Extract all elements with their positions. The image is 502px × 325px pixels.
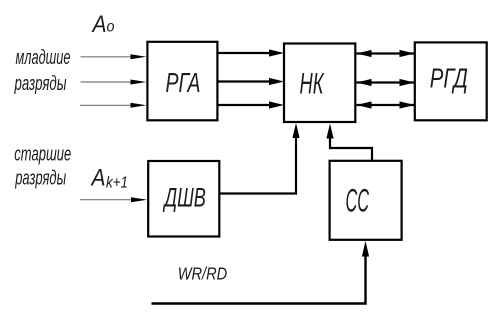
wire bidirectional НК-РГД row 3 [357, 101, 415, 108]
svg-text:НК: НК [300, 68, 325, 101]
block RGA (address register) [147, 42, 217, 121]
block DShV (ДШВ address decoder) [148, 161, 219, 237]
wire СС to НК bottom [326, 124, 372, 161]
wire bus РГА to НК row 1 [218, 49, 284, 56]
wire ДШВ to НК bottom (enable) [219, 123, 299, 194]
label Ak+1 [90, 165, 128, 192]
svg-text:A: A [90, 165, 106, 192]
svg-text:РГД: РГД [430, 63, 468, 94]
svg-text:A: A [91, 11, 107, 38]
svg-text:младшие: младшие [16, 47, 71, 69]
svg-text:РГА: РГА [166, 67, 201, 98]
block RGD (РГД data register) [415, 42, 487, 120]
wire bus РГА to НК row 3 [218, 101, 284, 108]
label A0 [91, 11, 115, 38]
input arrow lower bits row 1 [81, 54, 147, 59]
svg-text:СС: СС [346, 183, 370, 219]
wire bidirectional НК-РГД row 1 [357, 50, 415, 57]
input arrow Ak+1 into ДШВ [80, 197, 147, 202]
wire WR/RD to СС bottom [152, 241, 370, 304]
block NK (НК) [284, 44, 355, 123]
svg-text:разряды: разряды [15, 168, 67, 190]
wire bidirectional НК-РГД row 2 [357, 79, 415, 86]
svg-text:ДШВ: ДШВ [162, 183, 206, 213]
input arrow lower bits row 3 [80, 103, 146, 108]
wire bus РГА to НК row 2 [218, 78, 284, 85]
svg-text:k+1: k+1 [106, 175, 128, 192]
svg-text:o: o [107, 19, 115, 36]
input arrow lower bits row 2 [81, 80, 147, 85]
svg-text:разряды: разряды [14, 73, 67, 95]
svg-text:WR/RD: WR/RD [178, 264, 228, 284]
block SS (СС sync circuit) [330, 161, 402, 240]
svg-text:старшие: старшие [14, 144, 71, 166]
